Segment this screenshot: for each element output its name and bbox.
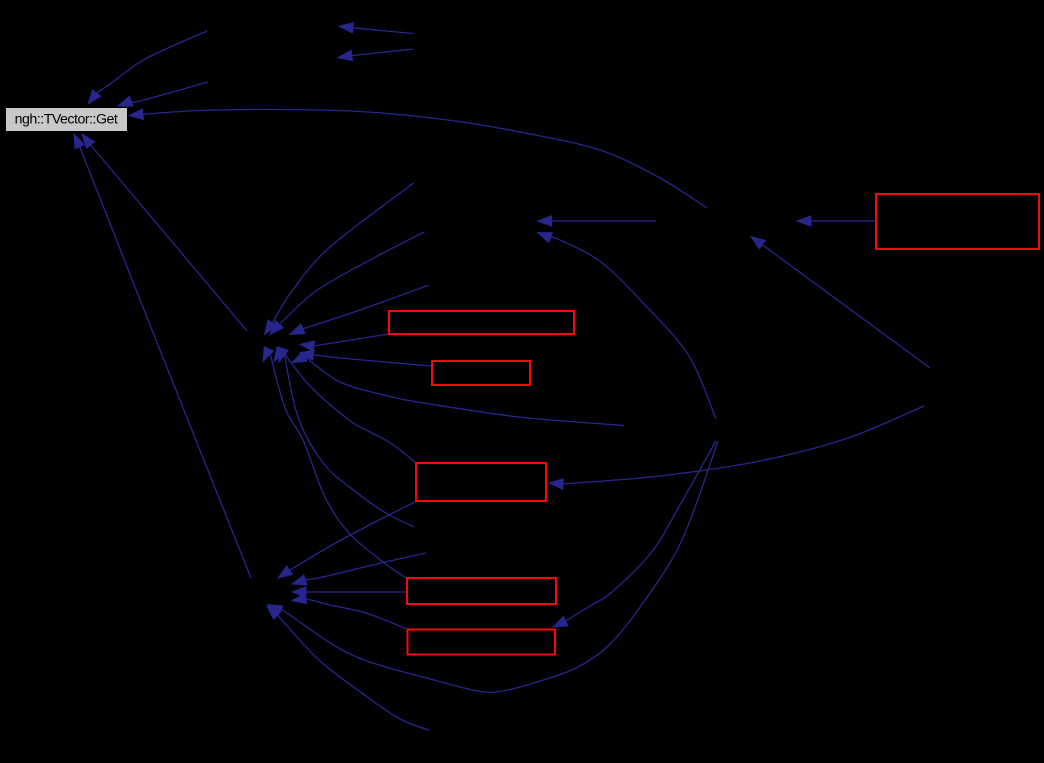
svg-text:ngh::TVector::Get: ngh::TVector::Get [15,112,118,128]
